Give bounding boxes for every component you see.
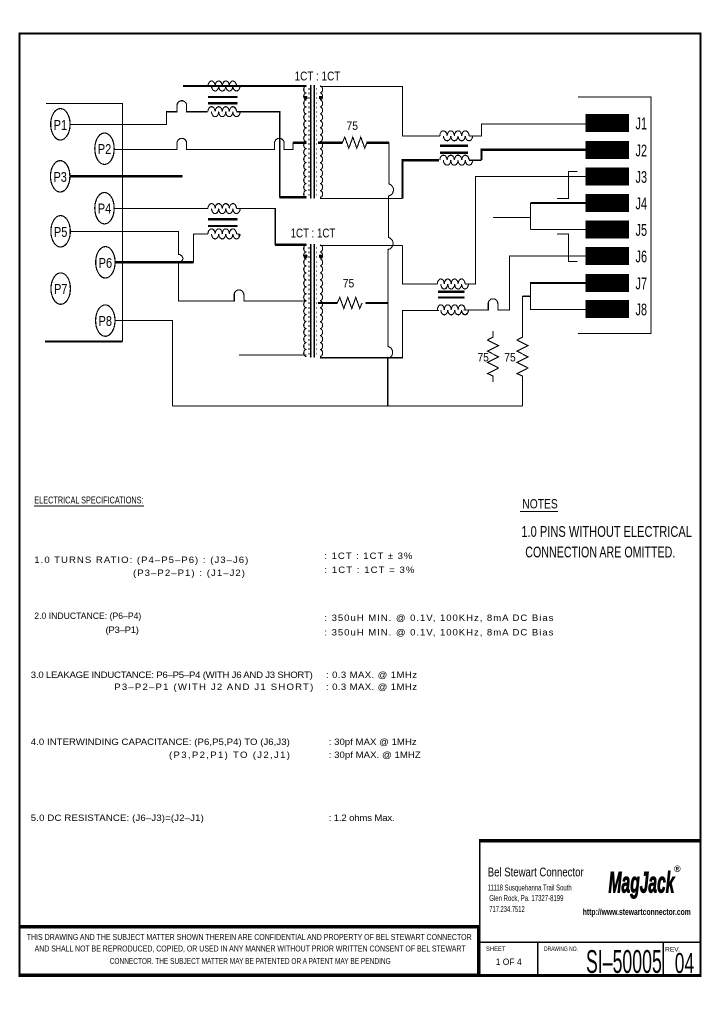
svg-text:(P3,P2,P1) TO (J2,J1): (P3,P2,P1) TO (J2,J1) [169, 750, 290, 761]
contact J7 [585, 274, 629, 292]
svg-text:P7: P7 [54, 281, 68, 298]
contact J4 [585, 194, 629, 212]
svg-text:http://www.stewartconnector.co: http://www.stewartconnector.com [583, 907, 691, 918]
T2 secondary top to choke L4 upper [320, 245, 437, 284]
pin P1 [51, 109, 70, 140]
svg-text:: 1.2 ohms Max.: : 1.2 ohms Max. [329, 813, 395, 824]
svg-text:1.0 PINS WITHOUT ELECTRICAL: 1.0 PINS WITHOUT ELECTRICAL [521, 524, 692, 541]
svg-text:MagJack: MagJack [609, 867, 676, 900]
wire P2 to T1 primary center tap (two hops) [114, 138, 293, 149]
svg-text:J7: J7 [636, 274, 648, 294]
svg-text:J3: J3 [636, 167, 648, 187]
svg-text:2.0 INDUCTANCE: (P6–P4): 2.0 INDUCTANCE: (P6–P4) [34, 611, 141, 622]
resistor R4 75 ohm (vertical, J7/J8 termination) [517, 296, 528, 406]
J7-J8 short vertical [530, 282, 532, 310]
svg-text:DRAWING NO.: DRAWING NO. [544, 946, 578, 953]
svg-text:J4: J4 [636, 194, 648, 214]
wire choke L2 lower out stub (connection omitted) [237, 234, 239, 237]
wire choke L2 upper out, down to T2 primary top [237, 209, 276, 245]
resistor R2 75 ohm [337, 297, 362, 308]
svg-text:5.0 DC RESISTANCE: (J6–J3)=(J2: 5.0 DC RESISTANCE: (J6–J3)=(J2–J1) [31, 813, 204, 824]
svg-text:J2: J2 [636, 141, 648, 161]
pin P6 [96, 247, 115, 278]
contact J1 [585, 114, 629, 132]
wire P8 to bottom rail [115, 321, 173, 406]
svg-text:04: 04 [675, 948, 694, 980]
svg-text:SHEET: SHEET [486, 946, 505, 953]
resistor R1 75 ohm [342, 137, 367, 148]
svg-text:®: ® [674, 864, 681, 874]
svg-text:J8: J8 [636, 300, 648, 320]
common vertical from R1/R2 to bottom rail (with 3 crossing hops) [388, 143, 394, 406]
bottom rail to R4 [173, 405, 523, 407]
svg-text:1CT : 1CT: 1CT : 1CT [295, 68, 341, 83]
pin P3 [51, 161, 70, 192]
contact J5 [585, 221, 629, 239]
svg-text:75: 75 [504, 351, 516, 365]
svg-text:75: 75 [343, 277, 355, 291]
svg-text:(P3–P2–P1) : (J1–J2): (P3–P2–P1) : (J1–J2) [133, 568, 245, 579]
svg-text:J5: J5 [636, 220, 648, 240]
crossing step at J3 wire [557, 172, 578, 199]
contact J6 [585, 247, 629, 265]
resistor R3 75 ohm (vertical, connection omitted) [488, 331, 499, 382]
T1 center tap left stub (thick) [293, 142, 306, 144]
svg-text:Glen Rock, Pa. 17327-8199: Glen Rock, Pa. 17327-8199 [489, 894, 564, 903]
J5 wire [530, 229, 585, 231]
svg-text:ELECTRICAL SPECIFICATIONS:: ELECTRICAL SPECIFICATIONS: [34, 495, 143, 507]
svg-text:P4: P4 [98, 201, 112, 218]
svg-text:: 30pf MAX @ 1MHz: : 30pf MAX @ 1MHz [329, 737, 417, 748]
svg-text:1CT : 1CT: 1CT : 1CT [291, 226, 336, 241]
transformer T2 [304, 244, 323, 358]
pin P2 [95, 133, 114, 164]
svg-text:P3: P3 [53, 169, 67, 186]
choke L1 (P1/P2 pair common-mode choke) [208, 81, 240, 117]
contact J3 [585, 168, 629, 186]
svg-text:P8: P8 [99, 313, 113, 330]
T1 secondary top to choke L3 upper [320, 86, 440, 136]
svg-text:THIS DRAWING AND THE SUBJECT M: THIS DRAWING AND THE SUBJECT MATTER SHOW… [27, 932, 472, 942]
contact J8 [585, 300, 629, 318]
connector P bracket [46, 103, 123, 341]
R4 top to J7/J8 midpoint [523, 295, 531, 297]
svg-text:(P3–P1): (P3–P1) [106, 625, 140, 636]
contact J2 [585, 141, 629, 159]
svg-text:P1: P1 [54, 117, 68, 134]
svg-text:75: 75 [477, 351, 489, 365]
choke L3 (J1/J2 output choke) [440, 131, 473, 165]
svg-text:P5: P5 [54, 224, 68, 241]
T1 secondary center tap to resistor R1 (thick) [318, 142, 342, 144]
pin P7 [51, 273, 70, 304]
choke L4 upper out, up to J3 [465, 177, 585, 285]
svg-text:P3–P2–P1 (WITH J2 AND J1 SHORT: P3–P2–P1 (WITH J2 AND J1 SHORT) [114, 682, 313, 693]
svg-text:11118 Susquehanna Trail South: 11118 Susquehanna Trail South [488, 883, 572, 892]
R1 out (thick) [367, 142, 389, 144]
J4 wire (thick) [530, 202, 585, 204]
svg-text:4.0 INTERWINDING CAPACITANCE:: 4.0 INTERWINDING CAPACITANCE: (P6,P5,P4)… [31, 737, 290, 748]
T2 secondary bottom to choke L4 lower [320, 310, 439, 357]
choke L4 (J3/J6 output choke) [437, 279, 468, 315]
svg-text:Bel Stewart Connector: Bel Stewart Connector [488, 865, 584, 880]
choke L3 lower out to J2 (thick) [469, 159, 482, 161]
svg-text:: 0.3 MAX. @ 1MHz: : 0.3 MAX. @ 1MHz [326, 670, 417, 681]
J8 wire [531, 309, 586, 311]
wire T2 primary bottom stub (connection omitted at x=239) [239, 354, 306, 356]
confidentiality box [19, 925, 479, 928]
svg-text:: 350uH MIN. @ 0.1V, 100KHz, 8: : 350uH MIN. @ 0.1V, 100KHz, 8mA DC Bias [324, 613, 553, 624]
pin P8 [96, 305, 115, 336]
choke L4 lower out to J6 (hop over omitted net at 493) [463, 256, 585, 310]
pin P4 [95, 193, 114, 224]
wire T2 primary top (thick) [275, 244, 306, 246]
svg-text:P6: P6 [99, 255, 113, 272]
svg-text:CONNECTOR. THE SUBJECT MATTER: CONNECTOR. THE SUBJECT MATTER MAY BE PAT… [110, 956, 391, 966]
T2 secondary center tap to resistor R2 (thick) [318, 302, 337, 304]
svg-text:J1: J1 [636, 114, 648, 134]
R2 out (thick) [366, 302, 389, 304]
svg-text:1 OF 4: 1 OF 4 [496, 957, 522, 967]
wire P5 to T2 center tap (hop over P6 wire, hop over omitted net) [70, 231, 306, 301]
wire P6 to choke L2 lower winding (thick then up) [116, 261, 194, 263]
wire choke L1 lower out, down to T1 primary bottom [237, 112, 280, 198]
choke L2 (P4/P6 pair common-mode choke) [208, 204, 240, 239]
title block frame [479, 839, 701, 842]
wire T1 primary bottom (thick) [280, 196, 307, 198]
svg-text:: 1CT : 1CT = 3%: : 1CT : 1CT = 3% [324, 565, 414, 576]
J4/J5 midpoint feed stub (connection omitted) [493, 216, 530, 218]
svg-text:: 350uH MIN. @ 0.1V, 100KHz, 8: : 350uH MIN. @ 0.1V, 100KHz, 8mA DC Bias [324, 628, 553, 639]
pin P5 [51, 216, 70, 247]
svg-text:CONNECTION ARE OMITTED.: CONNECTION ARE OMITTED. [525, 545, 675, 562]
svg-text:P2: P2 [98, 141, 112, 158]
crossing step at J6 wire [557, 234, 578, 261]
wire P3 stub (thick, connection omitted) [70, 175, 182, 177]
choke L3 upper out to J1 [469, 124, 585, 136]
T1 secondary bottom to choke L3 lower (thick riser) [320, 197, 402, 199]
wire choke L1 upper line from stub to T1 primary top (thick) [183, 85, 306, 87]
svg-text:3.0 LEAKAGE INDUCTANCE: P6–P5–: 3.0 LEAKAGE INDUCTANCE: P6–P5–P4 (WITH J… [31, 670, 313, 681]
svg-text:AND SHALL NOT BE REPRODUCED, C: AND SHALL NOT BE REPRODUCED, COPIED, OR … [35, 943, 467, 953]
svg-text:J6: J6 [636, 247, 648, 267]
wire P1 to choke L1 lower winding (with no-connect hop) [70, 101, 208, 125]
wire P4 to choke L2 upper winding [114, 207, 208, 209]
svg-text:NOTES: NOTES [522, 496, 558, 512]
svg-text:717.234.7512: 717.234.7512 [489, 905, 525, 914]
transformer T1 [304, 85, 323, 199]
svg-text:: 30pf MAX. @ 1MHZ: : 30pf MAX. @ 1MHZ [329, 750, 421, 761]
J4-J5 short vertical [529, 203, 531, 230]
svg-text:75: 75 [347, 119, 359, 133]
svg-text:: 0.3 MAX. @ 1MHz: : 0.3 MAX. @ 1MHz [326, 682, 417, 693]
svg-text:1.0 TURNS RATIO: (P4–P5–P6) :: 1.0 TURNS RATIO: (P4–P5–P6) : (J3–J6) [34, 555, 248, 566]
connector J bracket [578, 97, 651, 334]
J7 wire (thick) [531, 282, 586, 284]
svg-text:SI–50005: SI–50005 [586, 943, 662, 980]
svg-text:: 1CT : 1CT ± 3%: : 1CT : 1CT ± 3% [324, 551, 412, 562]
